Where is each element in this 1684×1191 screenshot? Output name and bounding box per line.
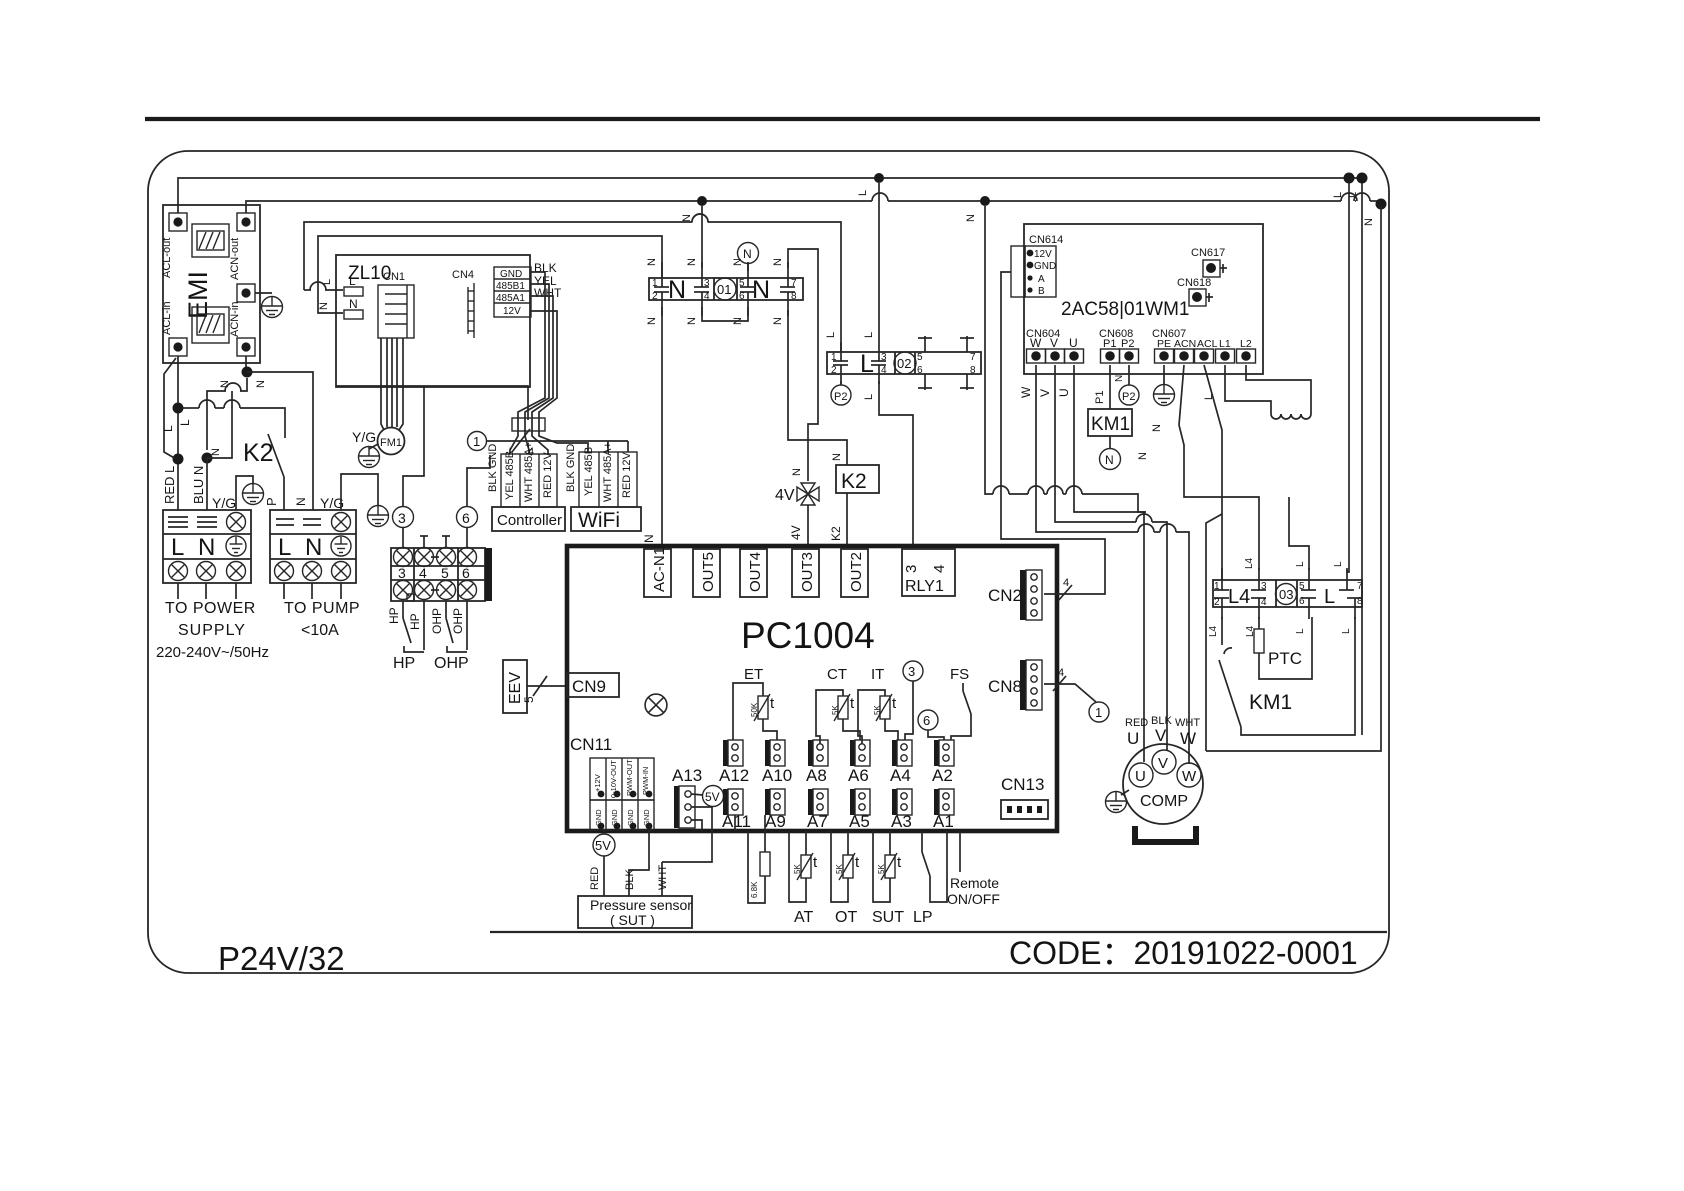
svg-text:W: W	[1019, 386, 1033, 398]
wire ZL10 L terminal lead with hop	[304, 289, 311, 291]
svg-text:WHT: WHT	[1175, 717, 1200, 729]
ground at FM1	[369, 444, 378, 449]
switch LP	[921, 831, 923, 852]
svg-text:CN614: CN614	[1029, 234, 1063, 246]
circle ref 1 with 4-core slash	[468, 432, 487, 451]
svg-text:4V: 4V	[775, 487, 795, 504]
svg-text:N: N	[1114, 375, 1125, 382]
svg-text:CN4: CN4	[452, 269, 474, 281]
svg-text:OHP: OHP	[451, 608, 465, 634]
svg-text:OUT3: OUT3	[799, 552, 816, 592]
svg-text:L4: L4	[1244, 557, 1255, 569]
wire ACN diagonal to return	[1179, 365, 1259, 570]
connector CN9	[567, 673, 619, 697]
svg-text:FM1: FM1	[380, 437, 402, 449]
svg-text:A: A	[1038, 274, 1045, 285]
terminal block TO POWER SUPPLY	[163, 510, 251, 583]
ground PE	[1163, 365, 1165, 385]
svg-text:CN13: CN13	[1001, 775, 1044, 794]
N supply circle above pin5	[738, 243, 759, 264]
svg-text:RLY1: RLY1	[905, 578, 944, 595]
svg-text:OUT5: OUT5	[700, 552, 717, 592]
ZL10 N terminal	[344, 310, 363, 319]
svg-text:U: U	[1127, 729, 1139, 748]
svg-text:U: U	[1135, 768, 1146, 785]
relay L4-03-L	[1213, 580, 1362, 607]
sensor connector A2	[934, 740, 954, 766]
ZL10 output table GND/485B1/485A1/12V	[494, 267, 531, 317]
pin numbers	[831, 352, 976, 376]
svg-text:( SUT ): ( SUT )	[610, 912, 655, 928]
svg-text:A8: A8	[806, 766, 827, 785]
svg-text:CN1: CN1	[383, 271, 405, 283]
svg-text:1: 1	[473, 434, 480, 449]
pressure sensor box	[578, 896, 692, 928]
svg-text:A7: A7	[807, 812, 828, 831]
wire K2 to pin8 net	[788, 310, 847, 465]
svg-text:3: 3	[881, 352, 887, 363]
svg-text:L: L	[1333, 561, 1344, 567]
ground at ACN-in middle	[255, 292, 272, 294]
svg-text:02: 02	[897, 356, 911, 371]
svg-text:<10A: <10A	[301, 622, 339, 639]
svg-text:5: 5	[917, 352, 923, 363]
svg-text:L4: L4	[1228, 586, 1250, 608]
wire L to K2 fixed contact with hops	[183, 407, 199, 409]
wire pin2 to AC-N1	[661, 307, 663, 546]
svg-text:N: N	[772, 317, 784, 325]
svg-text:L2: L2	[1240, 338, 1252, 350]
svg-text:3: 3	[398, 510, 406, 526]
wire v1362 from rail L	[1361, 183, 1363, 735]
svg-text:BLK: BLK	[624, 869, 636, 890]
svg-text:4: 4	[1063, 577, 1069, 589]
wire pin3 feed	[1206, 514, 1222, 751]
svg-text:03: 03	[1279, 587, 1293, 602]
node rail N at 702	[697, 196, 707, 206]
driver board 2AC58|01WM1	[1024, 224, 1263, 374]
relay pins top	[1214, 568, 1354, 590]
svg-text:5K: 5K	[793, 864, 802, 874]
svg-text:N: N	[752, 276, 770, 304]
svg-text:N: N	[686, 258, 698, 266]
svg-text:Controller: Controller	[497, 512, 562, 529]
svg-text:N: N	[772, 258, 784, 266]
svg-text:OUT4: OUT4	[747, 552, 764, 592]
svg-text:RED: RED	[1125, 717, 1148, 729]
svg-text:A2: A2	[932, 766, 953, 785]
wires W V U down and across to COMP	[1036, 365, 1189, 764]
svg-text:L: L	[349, 274, 356, 288]
sensor connector A4	[892, 740, 912, 766]
svg-text:7: 7	[791, 278, 797, 289]
wire P1 to KM1 coil	[1109, 365, 1111, 409]
svg-text:3: 3	[903, 565, 920, 573]
svg-text:5: 5	[441, 565, 449, 581]
svg-text:WiFi: WiFi	[578, 509, 620, 532]
compressor labels	[1125, 715, 1200, 729]
svg-text:N: N	[646, 258, 658, 266]
relay pins bottom	[654, 292, 795, 316]
node L feeder upper	[173, 403, 184, 414]
svg-text:L: L	[278, 534, 291, 561]
svg-text:N: N	[349, 297, 358, 311]
svg-text:N: N	[210, 448, 222, 456]
svg-text:3: 3	[1261, 581, 1267, 592]
bottom connector A7	[808, 789, 828, 815]
svg-text:3: 3	[398, 565, 406, 581]
svg-text:TO POWER: TO POWER	[165, 600, 256, 617]
svg-text:PWM-OUT: PWM-OUT	[625, 759, 634, 796]
svg-text:6: 6	[917, 365, 923, 376]
svg-text:PTC: PTC	[1268, 649, 1302, 668]
svg-text:CN2: CN2	[988, 586, 1022, 605]
bottom connector A5	[850, 789, 870, 815]
svg-text:K2: K2	[243, 439, 274, 467]
svg-text:N: N	[965, 214, 977, 222]
svg-text:A3: A3	[891, 812, 912, 831]
svg-text:1: 1	[1095, 705, 1102, 720]
svg-text:KM1: KM1	[1249, 691, 1292, 714]
wire L branch to ZL10 and L-02 relay	[304, 222, 841, 352]
terminal ACN-in lower	[237, 338, 255, 356]
EMI hatched element upper	[192, 224, 229, 257]
ACN-in feeder to pump N	[245, 356, 247, 372]
svg-text:ET: ET	[744, 666, 763, 683]
svg-text:01: 01	[717, 282, 731, 297]
svg-text:A10: A10	[762, 766, 792, 785]
svg-text:K2: K2	[841, 470, 867, 493]
svg-text:WHT 485A+: WHT 485A+	[602, 442, 614, 502]
svg-text:2: 2	[831, 365, 837, 376]
svg-text:485B1: 485B1	[496, 281, 525, 292]
wire N branch to ZL10 and N-01 relay	[318, 236, 662, 313]
svg-text:ACL-out: ACL-out	[161, 238, 173, 278]
svg-text:P24V/32: P24V/32	[218, 940, 345, 977]
svg-text:PE: PE	[1157, 338, 1171, 350]
node rail L at 879	[874, 173, 884, 183]
svg-text:L: L	[1341, 628, 1352, 634]
svg-text:N: N	[198, 534, 215, 561]
svg-text:GND: GND	[500, 269, 522, 280]
svg-text:A13: A13	[672, 766, 702, 785]
svg-text:5K: 5K	[877, 864, 886, 874]
svg-text:3: 3	[704, 278, 710, 289]
resistor 6.8K below A9	[764, 815, 766, 852]
svg-text:Pressure sensor: Pressure sensor	[590, 897, 692, 913]
svg-text:6: 6	[462, 510, 470, 526]
comm cable bundle from table to Controller/WiFi	[510, 272, 628, 454]
svg-text:YEL 485B: YEL 485B	[583, 447, 595, 496]
contact KM1	[1221, 617, 1223, 645]
svg-text:Remote: Remote	[950, 875, 999, 891]
svg-text:KM1: KM1	[1091, 414, 1130, 435]
svg-text:5K: 5K	[835, 864, 844, 874]
svg-text:A4: A4	[890, 766, 911, 785]
Remote ON/OFF wire	[959, 831, 961, 872]
L4/L pin labels	[1208, 557, 1352, 637]
svg-text:N: N	[1151, 424, 1163, 432]
svg-text:B: B	[1038, 286, 1045, 297]
relay pins bottom	[1214, 598, 1362, 619]
connector OUT2	[841, 549, 868, 597]
svg-text:4: 4	[1058, 667, 1064, 679]
pin numbers	[1214, 581, 1363, 608]
svg-text:W: W	[1182, 768, 1197, 785]
pressure sensor leads RED BLK WHT	[603, 856, 605, 896]
svg-text:N: N	[831, 453, 843, 461]
row3 screws	[169, 562, 188, 581]
node rail L at 1362	[1357, 173, 1368, 184]
choke coil	[1271, 414, 1311, 419]
svg-text:WHT 485A+: WHT 485A+	[523, 442, 535, 502]
svg-text:N: N	[1105, 453, 1114, 467]
connector CN11	[590, 758, 654, 830]
stubs above cells 4,5	[420, 536, 450, 548]
svg-text:L: L	[1324, 586, 1335, 608]
svg-text:TO PUMP: TO PUMP	[284, 600, 360, 617]
svg-text:485A1: 485A1	[496, 293, 525, 304]
terminal block TO PUMP	[270, 510, 356, 583]
svg-text:AT: AT	[794, 909, 813, 926]
OHP pressure switch pair	[446, 601, 467, 652]
svg-text:YEL 485B-: YEL 485B-	[504, 447, 516, 500]
ground stub on power Y/G	[236, 476, 253, 510]
wire rail L to pin3	[878, 183, 880, 342]
sensor connector A10	[765, 740, 785, 766]
svg-text:CODE：20191022-0001: CODE：20191022-0001	[1009, 935, 1358, 971]
fan motor FM1	[378, 428, 405, 455]
svg-text:5K: 5K	[873, 705, 882, 715]
svg-text:5K: 5K	[831, 705, 840, 715]
svg-text:Y/G: Y/G	[212, 495, 236, 511]
stubs below pump block	[284, 583, 341, 599]
svg-text:N: N	[681, 214, 693, 222]
svg-text:6: 6	[1299, 596, 1305, 607]
svg-text:4: 4	[881, 365, 887, 376]
svg-text:4: 4	[419, 565, 427, 581]
wire L1 to choke	[1225, 365, 1271, 414]
wire rail N second	[246, 201, 872, 213]
svg-text:8: 8	[791, 291, 797, 302]
svg-text:N: N	[642, 534, 656, 543]
svg-text:N: N	[743, 247, 752, 261]
5V ref circle	[691, 794, 703, 795]
svg-text:P2: P2	[834, 391, 847, 403]
svg-text:N: N	[1137, 452, 1149, 460]
svg-text:8: 8	[970, 365, 976, 376]
WiFi box	[571, 507, 641, 531]
svg-text:AC-N1: AC-N1	[651, 547, 668, 592]
svg-text:P: P	[264, 497, 279, 506]
cable marker box	[512, 418, 545, 431]
svg-text:CN8: CN8	[988, 677, 1022, 696]
EEV box	[503, 660, 527, 713]
svg-text:ACL: ACL	[1197, 338, 1218, 350]
svg-text:L: L	[857, 190, 869, 196]
svg-text:HP: HP	[387, 607, 401, 624]
svg-text:12V: 12V	[503, 306, 521, 317]
svg-text:P2: P2	[1121, 338, 1134, 350]
svg-text:BLK GND: BLK GND	[565, 444, 577, 492]
top rule line	[145, 117, 1540, 121]
svg-text:4: 4	[1261, 597, 1267, 608]
left feeder: ACL-in down to power terminal L	[177, 356, 179, 510]
svg-text:P1: P1	[1094, 391, 1106, 404]
svg-text:L: L	[863, 332, 875, 338]
wire v1381 rail N to bottom loop	[1206, 206, 1381, 751]
A11 wire to WHT	[734, 815, 736, 831]
thermistor OT	[847, 831, 849, 855]
svg-text:OHP: OHP	[430, 608, 444, 634]
A13 wires	[662, 807, 712, 862]
ground stub on pump Y/G	[341, 474, 378, 510]
svg-text:U: U	[1057, 388, 1071, 397]
svg-text:A1: A1	[933, 812, 954, 831]
wire pin7 to 4V valve	[788, 249, 818, 481]
svg-text:5V: 5V	[595, 838, 611, 853]
svg-text:1: 1	[652, 278, 658, 289]
sensor connector A12	[723, 740, 743, 766]
row3 screws	[275, 562, 294, 581]
relay N-01-N	[649, 278, 803, 300]
svg-text:PC1004: PC1004	[741, 615, 875, 656]
wire rail N to pin3	[701, 206, 703, 268]
svg-text:RED 12V: RED 12V	[542, 451, 554, 498]
svg-text:L: L	[1203, 394, 1215, 400]
5V supply circle below board	[593, 834, 615, 856]
svg-text:GND: GND	[1034, 261, 1056, 272]
N circle under KM1	[1100, 449, 1121, 470]
svg-text:ACL-in: ACL-in	[161, 301, 173, 335]
node rail N corner 1381	[1376, 199, 1387, 210]
connector RLY1	[902, 549, 955, 596]
svg-text:L4: L4	[1208, 625, 1219, 637]
net wire from ZL10 edge to marker box	[336, 386, 528, 420]
svg-text:EMI: EMI	[183, 271, 213, 319]
circle ref 6 left	[466, 528, 468, 548]
ZL10 box	[336, 255, 530, 387]
svg-text:L: L	[321, 279, 333, 285]
relay K2 coil box	[836, 465, 879, 493]
wire L2 to choke	[1246, 365, 1311, 414]
pressure switch terminal block 3456	[391, 548, 485, 601]
svg-text:L: L	[161, 425, 175, 432]
fuse marks row1	[168, 517, 217, 527]
Controller box	[492, 507, 565, 531]
circle ref 3 inner	[903, 661, 923, 681]
svg-text:5: 5	[522, 696, 536, 703]
svg-text:P2: P2	[1122, 391, 1135, 403]
wire pin7 from rail L v1349	[1347, 183, 1349, 572]
svg-text:A12: A12	[719, 766, 749, 785]
svg-text:ON/OFF: ON/OFF	[947, 891, 1000, 907]
svg-text:L: L	[825, 332, 837, 338]
svg-text:5: 5	[739, 278, 745, 289]
svg-text:V: V	[1158, 755, 1168, 772]
svg-text:K2: K2	[829, 526, 843, 541]
svg-text:ACN: ACN	[1174, 338, 1196, 350]
svg-text:5V: 5V	[705, 790, 720, 804]
outer border rounded frame	[148, 151, 1389, 973]
svg-text:7: 7	[970, 352, 976, 363]
svg-text:N: N	[318, 302, 330, 310]
relay pins bottom	[833, 365, 974, 390]
svg-text:W: W	[1030, 336, 1042, 350]
svg-text:LP: LP	[913, 909, 933, 926]
svg-text:A11: A11	[722, 812, 751, 831]
wire CN614 cable to CN2	[1001, 272, 1105, 594]
svg-text:A5: A5	[849, 812, 870, 831]
svg-text:HP: HP	[408, 613, 422, 630]
fan motor FM1 wire bundle from CN1	[381, 338, 403, 430]
svg-text:RED: RED	[589, 867, 601, 890]
wire K2 to OUT2	[846, 493, 848, 546]
link pins 4-6 below	[702, 307, 748, 321]
N labels around relay	[646, 258, 784, 325]
svg-text:N: N	[255, 380, 267, 388]
wire rail N drop v985 across W V U	[985, 206, 1146, 512]
svg-text:CN617: CN617	[1191, 247, 1225, 259]
relay pins top	[833, 336, 974, 361]
svg-text:BLU N: BLU N	[191, 466, 206, 504]
EEV 5-core lead	[527, 685, 566, 687]
svg-text:RED L: RED L	[162, 466, 177, 504]
svg-text:1: 1	[1214, 581, 1220, 592]
coil KM1	[1088, 409, 1132, 436]
terminal ACL-in	[169, 338, 187, 356]
svg-text:L: L	[1295, 561, 1306, 567]
svg-text:1: 1	[831, 352, 837, 363]
svg-text:3: 3	[908, 664, 915, 679]
connector AC-N1	[644, 549, 671, 597]
row1 marks	[276, 519, 321, 525]
svg-text:6: 6	[739, 291, 745, 302]
connector OUT5	[693, 549, 720, 597]
svg-text:W: W	[1180, 729, 1196, 748]
svg-text:CN9: CN9	[572, 677, 606, 696]
wire rail L top	[178, 178, 1366, 213]
EMI filter box	[163, 205, 260, 363]
svg-text:N: N	[686, 317, 698, 325]
svg-text:N: N	[646, 317, 658, 325]
svg-text:OUT2: OUT2	[848, 552, 865, 592]
pin numbers	[652, 278, 797, 302]
lamp symbol	[645, 694, 667, 716]
svg-text:6: 6	[462, 565, 470, 581]
sensor connector A6	[850, 740, 870, 766]
relay L-02	[827, 352, 981, 374]
svg-text:2: 2	[652, 291, 658, 302]
svg-text:N: N	[791, 468, 803, 476]
node L feeder lower	[173, 454, 184, 465]
wire CN8 to circle 1	[1044, 684, 1096, 702]
svg-text:CT: CT	[827, 666, 847, 683]
HP pressure switch pair	[403, 601, 424, 652]
svg-text:N: N	[1363, 218, 1375, 226]
svg-text:CN618: CN618	[1177, 277, 1211, 289]
svg-text:4V: 4V	[789, 525, 803, 540]
wire pin5 feed	[1289, 497, 1309, 570]
circle ref 3 left	[402, 527, 404, 548]
svg-text:WHT: WHT	[657, 865, 669, 890]
hop on L branch over N vertical	[692, 214, 708, 222]
svg-text:ACN-in: ACN-in	[229, 302, 241, 337]
wire P2 stub	[1128, 365, 1130, 385]
svg-text:L1: L1	[1219, 338, 1231, 350]
svg-text:N: N	[305, 534, 322, 561]
terminal ACN-out	[237, 213, 255, 231]
